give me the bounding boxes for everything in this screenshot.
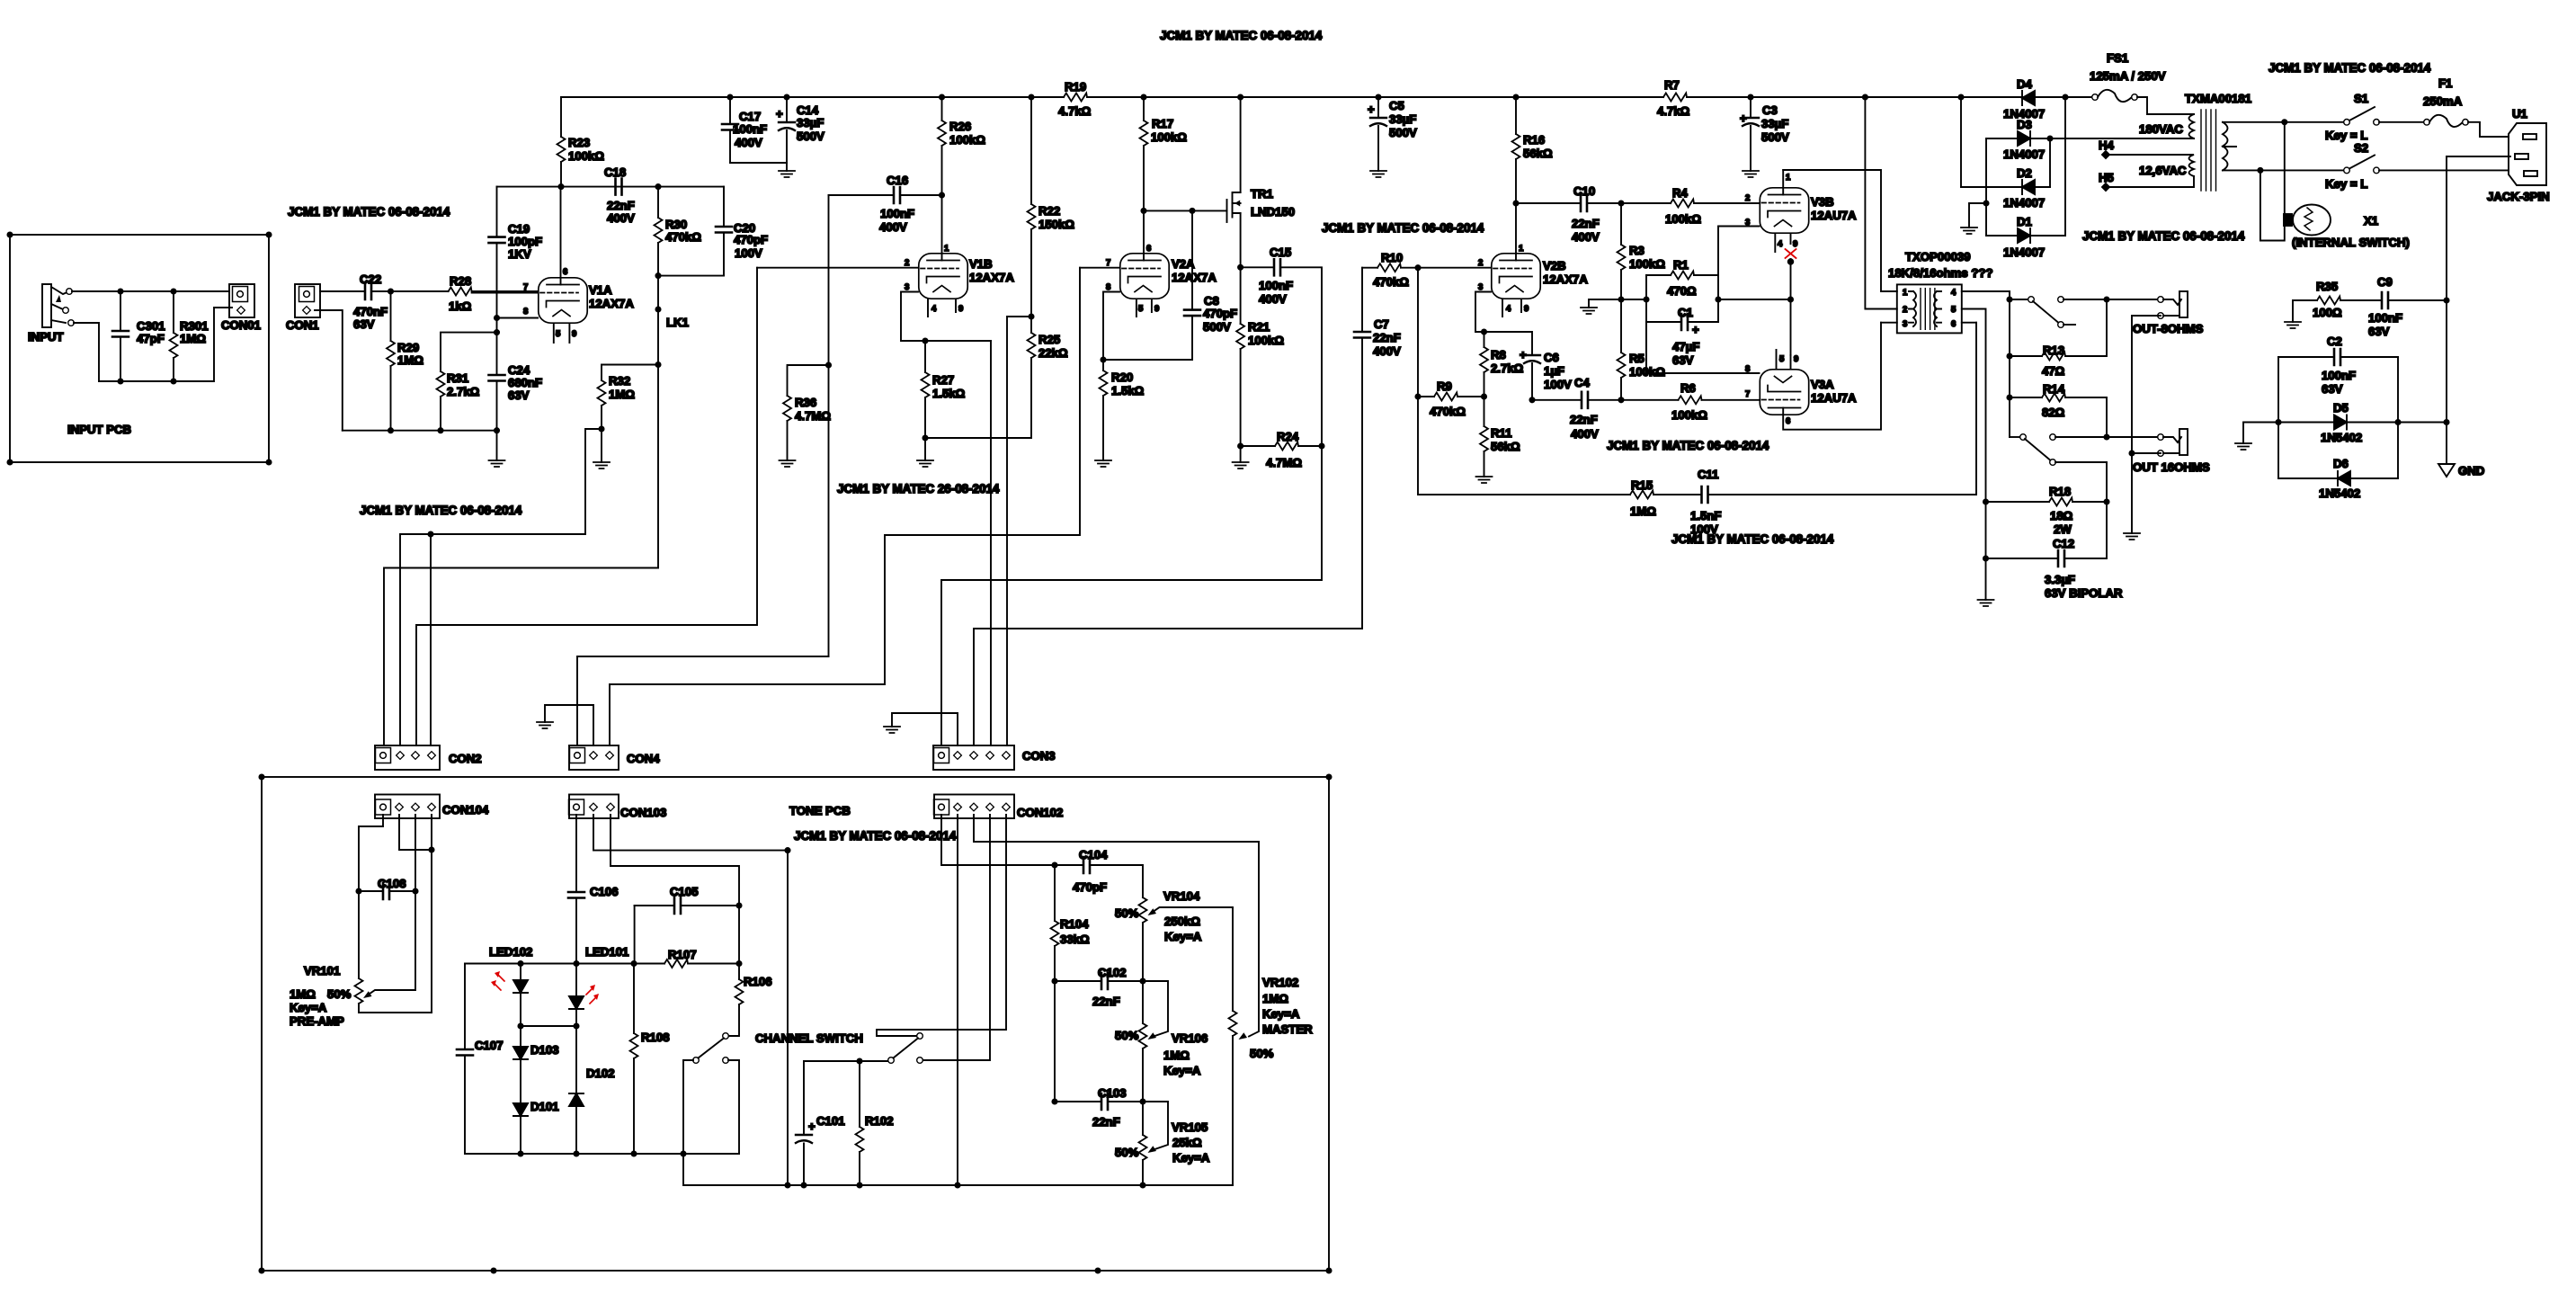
wire R30-C20 bottom xyxy=(655,273,724,278)
wire B+ to xfmr pin2 xyxy=(1865,97,1896,309)
svg-text:C107: C107 xyxy=(475,1039,504,1052)
header text 1 xyxy=(1160,29,1323,42)
svg-text:4.7MΩ: 4.7MΩ xyxy=(1266,456,1302,469)
svg-text:V1A: V1A xyxy=(589,283,612,297)
wire C17-C14 gnd xyxy=(730,163,787,171)
svg-text:22nF: 22nF xyxy=(1092,1115,1120,1129)
resistor R102 xyxy=(856,1061,894,1185)
wire xfmr pin3 from V3A xyxy=(1881,322,1897,324)
svg-text:100nF: 100nF xyxy=(1259,279,1293,292)
svg-text:JCM1 BY MATEC 06-08-2014: JCM1 BY MATEC 06-08-2014 xyxy=(288,205,450,219)
svg-text:9: 9 xyxy=(1524,304,1529,314)
wire xfmr pin6 out xyxy=(1962,322,1976,324)
svg-text:4: 4 xyxy=(1506,304,1511,314)
svg-text:C101: C101 xyxy=(816,1114,845,1128)
wire R27-R25 bottom xyxy=(925,437,1030,439)
svg-text:400V: 400V xyxy=(1572,230,1600,244)
svg-text:VR102: VR102 xyxy=(1262,976,1298,989)
svg-text:VR106: VR106 xyxy=(1172,1031,1208,1045)
capacitor C4 xyxy=(1529,376,1621,441)
svg-text:1: 1 xyxy=(1786,173,1791,183)
svg-text:1MΩ: 1MΩ xyxy=(1163,1049,1190,1062)
wire V1B grid drop to CON2 xyxy=(416,268,757,745)
resistor R15 xyxy=(1630,478,1702,518)
svg-text:V1B: V1B xyxy=(969,257,993,271)
svg-text:R21: R21 xyxy=(1248,320,1270,334)
svg-text:9: 9 xyxy=(572,329,576,339)
svg-text:C102: C102 xyxy=(1098,966,1127,979)
pot VR102 xyxy=(1229,976,1314,1185)
svg-text:470kΩ: 470kΩ xyxy=(1430,405,1466,418)
svg-text:63V: 63V xyxy=(2368,325,2390,338)
svg-text:CON104: CON104 xyxy=(442,803,489,817)
svg-text:R1: R1 xyxy=(1673,258,1689,272)
svg-text:JCM1 BY MATEC 06-08-2014: JCM1 BY MATEC 06-08-2014 xyxy=(2268,61,2431,75)
svg-text:C103: C103 xyxy=(1098,1086,1127,1100)
resistor R25 xyxy=(1028,314,1069,438)
resistor R107 xyxy=(664,903,742,968)
ground C5 xyxy=(1370,171,1386,177)
svg-text:2: 2 xyxy=(905,258,909,268)
svg-text:C5: C5 xyxy=(1389,99,1404,112)
svg-text:H4: H4 xyxy=(2099,138,2115,152)
svg-text:TONE PCB: TONE PCB xyxy=(789,804,851,817)
svg-text:4: 4 xyxy=(1778,239,1783,249)
capacitor C108 xyxy=(359,877,415,899)
resistor R35 xyxy=(2293,280,2382,322)
svg-text:R8: R8 xyxy=(1491,348,1506,361)
wire C8 to cathode xyxy=(1101,357,1192,361)
header text 8 xyxy=(2082,229,2245,243)
svg-text:Key=A: Key=A xyxy=(1262,1007,1300,1021)
svg-text:R102: R102 xyxy=(865,1114,894,1128)
svg-text:100kΩ: 100kΩ xyxy=(1665,212,1701,226)
ground R24 xyxy=(1233,462,1249,469)
svg-text:D3: D3 xyxy=(2017,118,2032,131)
node input-C301 xyxy=(118,289,175,293)
svg-text:100nF: 100nF xyxy=(733,122,767,136)
svg-text:1.5nF: 1.5nF xyxy=(1690,509,1721,522)
capacitor C101 xyxy=(796,1061,845,1185)
svg-text:56kΩ: 56kΩ xyxy=(1491,440,1520,453)
svg-text:R4: R4 xyxy=(1672,186,1689,200)
connector CON01 xyxy=(221,284,261,332)
svg-text:CON103: CON103 xyxy=(620,806,666,819)
svg-text:+: + xyxy=(1740,112,1747,125)
transformer TXMA00181 xyxy=(2050,92,2285,191)
svg-text:D102: D102 xyxy=(586,1066,615,1080)
resistor R108 xyxy=(630,964,670,1155)
tube V1A xyxy=(472,187,635,343)
svg-text:GND: GND xyxy=(2458,464,2484,477)
resistor R23 xyxy=(557,97,605,187)
svg-text:3: 3 xyxy=(1903,319,1907,329)
svg-text:C22: C22 xyxy=(360,272,381,286)
svg-text:100kΩ: 100kΩ xyxy=(568,149,604,163)
svg-text:R104: R104 xyxy=(1060,917,1089,931)
svg-text:R30: R30 xyxy=(665,218,687,231)
svg-text:470pF: 470pF xyxy=(734,233,768,246)
wire V1B cathode drop xyxy=(990,341,992,745)
svg-text:C301: C301 xyxy=(137,319,165,333)
svg-text:R7: R7 xyxy=(1664,78,1680,92)
svg-text:470pF: 470pF xyxy=(1203,307,1237,320)
svg-text:C18: C18 xyxy=(604,165,626,179)
svg-text:500V: 500V xyxy=(1389,126,1417,139)
svg-text:LK1: LK1 xyxy=(666,316,689,329)
svg-text:33µF: 33µF xyxy=(1761,117,1788,130)
svg-text:1N5402: 1N5402 xyxy=(2319,486,2360,500)
svg-text:Key=A: Key=A xyxy=(1164,930,1202,943)
resistor R26 xyxy=(938,97,985,195)
diode D101 xyxy=(513,1100,559,1154)
svg-text:R29: R29 xyxy=(397,341,419,354)
svg-text:1.5kΩ: 1.5kΩ xyxy=(1111,384,1145,397)
svg-text:2: 2 xyxy=(1903,305,1907,315)
wire CON102 pin5 xyxy=(877,815,1006,1036)
switch out-16 xyxy=(2010,434,2158,502)
svg-text:JCM1 BY MATEC 06-08-2014: JCM1 BY MATEC 06-08-2014 xyxy=(1607,439,1769,452)
svg-text:1MΩ: 1MΩ xyxy=(397,353,423,367)
svg-text:33kΩ: 33kΩ xyxy=(1060,933,1090,946)
svg-text:CON102: CON102 xyxy=(1017,806,1063,819)
svg-text:100nF: 100nF xyxy=(2322,369,2356,382)
svg-text:50%: 50% xyxy=(1250,1047,1274,1060)
svg-text:+: + xyxy=(776,107,783,120)
svg-text:R35: R35 xyxy=(2316,280,2338,293)
capacitor C22 xyxy=(320,272,391,331)
svg-text:S2: S2 xyxy=(2354,141,2368,155)
svg-text:CON4: CON4 xyxy=(627,752,660,765)
svg-text:R108: R108 xyxy=(641,1031,670,1044)
wire CON103 pin3 xyxy=(611,815,739,906)
svg-text:100V: 100V xyxy=(1544,378,1572,391)
wire jack mid pin gnd rail xyxy=(2444,156,2510,463)
svg-text:100nF: 100nF xyxy=(880,207,914,220)
svg-text:1MΩ: 1MΩ xyxy=(1630,504,1656,518)
svg-text:D5: D5 xyxy=(2333,401,2349,415)
wire B+ rail xyxy=(561,94,2065,99)
svg-text:F1: F1 xyxy=(2438,76,2452,90)
svg-text:1.5kΩ: 1.5kΩ xyxy=(932,387,966,400)
svg-text:D103: D103 xyxy=(530,1043,559,1057)
svg-text:R6: R6 xyxy=(1680,381,1696,395)
capacitor C107 xyxy=(457,964,504,1155)
wire xfmr pin5 out xyxy=(1962,309,1986,503)
diode D5 xyxy=(2278,401,2447,444)
svg-text:C17: C17 xyxy=(739,110,761,123)
svg-text:1kΩ: 1kΩ xyxy=(449,299,472,313)
svg-text:18K/8/16ohms ???: 18K/8/16ohms ??? xyxy=(1888,266,1993,280)
svg-text:9: 9 xyxy=(1794,354,1798,364)
svg-text:18Ω: 18Ω xyxy=(2050,509,2073,522)
fuse FS1 xyxy=(2065,51,2194,114)
svg-text:3: 3 xyxy=(1745,218,1750,228)
svg-text:5: 5 xyxy=(1951,305,1957,315)
ground R18/C12 xyxy=(1978,600,1994,606)
capacitor C105 xyxy=(635,885,739,964)
svg-text:4: 4 xyxy=(1951,288,1957,298)
svg-text:R19: R19 xyxy=(1065,80,1086,94)
switch out-8 xyxy=(2007,291,2158,437)
capacitor C1 xyxy=(1646,306,1718,367)
svg-text:4.7kΩ: 4.7kΩ xyxy=(1657,104,1690,118)
wire R10 to V2B xyxy=(1415,265,1491,270)
svg-text:470Ω: 470Ω xyxy=(1667,284,1697,298)
svg-text:JCM1 BY MATEC 06-08-2014: JCM1 BY MATEC 06-08-2014 xyxy=(1160,29,1323,42)
svg-text:100kΩ: 100kΩ xyxy=(1151,130,1187,144)
svg-text:100pF: 100pF xyxy=(508,235,542,248)
X mark V3B pin9 xyxy=(1786,249,1796,258)
wire V3B cathode chain xyxy=(1788,259,1794,355)
svg-text:CHANNEL SWITCH: CHANNEL SWITCH xyxy=(755,1031,863,1045)
svg-text:250mA: 250mA xyxy=(2423,94,2463,108)
wire V2A grid net to CON4 xyxy=(610,268,1080,745)
resistor R24 xyxy=(1238,430,1324,469)
svg-text:R301: R301 xyxy=(180,319,209,333)
svg-text:R18: R18 xyxy=(2049,485,2071,498)
svg-text:500V: 500V xyxy=(1203,320,1231,334)
svg-text:400V: 400V xyxy=(735,136,762,149)
LED101 arrows xyxy=(586,985,599,1004)
svg-text:LED101: LED101 xyxy=(585,945,628,959)
svg-text:33µF: 33µF xyxy=(1389,112,1416,126)
svg-text:C104: C104 xyxy=(1079,848,1108,861)
resistor R8 xyxy=(1480,329,1524,397)
capacitor C18 xyxy=(604,165,635,225)
resistor R16 xyxy=(1512,97,1554,203)
jack OUT 16OHMS xyxy=(2133,429,2210,474)
capacitor C24 xyxy=(489,318,543,431)
svg-text:R9: R9 xyxy=(1437,379,1452,393)
ground D5 xyxy=(2235,423,2278,451)
resistor R31 xyxy=(437,333,497,431)
header text 5 xyxy=(1322,221,1484,235)
svg-text:500V: 500V xyxy=(1761,130,1789,144)
diode D6 xyxy=(2278,457,2398,500)
tube V2B xyxy=(1475,203,1588,332)
svg-text:C16: C16 xyxy=(887,174,908,187)
svg-text:8: 8 xyxy=(1106,282,1110,292)
fuse F1 xyxy=(2379,76,2509,137)
svg-text:22nF: 22nF xyxy=(607,199,635,212)
ground R11 xyxy=(1476,477,1493,483)
wire S2 to jack xyxy=(2379,169,2509,171)
ground R27 xyxy=(917,460,933,467)
svg-text:2.7kΩ: 2.7kΩ xyxy=(447,385,480,398)
svg-text:63V BIPOLAR: 63V BIPOLAR xyxy=(2045,586,2123,600)
resistor R6 xyxy=(1618,381,1759,422)
wire R1C1 rails xyxy=(1621,275,1791,373)
svg-text:1: 1 xyxy=(1519,244,1524,254)
capacitor C15 xyxy=(1241,245,1322,446)
terminal H5 xyxy=(2099,171,2114,191)
wire LK1 xyxy=(655,276,689,568)
svg-text:C15: C15 xyxy=(1270,245,1291,259)
svg-text:C24: C24 xyxy=(508,363,530,377)
wire CON102 pin1 xyxy=(941,815,1055,865)
resistor R106 xyxy=(728,964,772,1037)
wire ground rail input stage xyxy=(343,428,499,460)
wire C16 net to CON4 xyxy=(577,656,829,745)
transistor TR1 LND150 xyxy=(1141,97,1295,267)
svg-text:TXMA00181: TXMA00181 xyxy=(2185,92,2251,105)
tube V2A xyxy=(1080,210,1217,370)
svg-text:R5: R5 xyxy=(1629,352,1645,365)
connector CON3 xyxy=(933,745,1056,770)
svg-text:R36: R36 xyxy=(795,396,816,409)
svg-text:D4: D4 xyxy=(2017,77,2033,91)
svg-text:C106: C106 xyxy=(590,885,619,898)
svg-text:D6: D6 xyxy=(2333,457,2349,470)
svg-text:Key=A: Key=A xyxy=(1172,1151,1210,1165)
resistor R17 xyxy=(1140,97,1188,210)
resistor R27 xyxy=(922,341,966,460)
wire gnd rail tone xyxy=(683,1154,1233,1188)
tube V1B xyxy=(757,195,1014,344)
svg-text:R24: R24 xyxy=(1277,430,1299,443)
svg-text:8: 8 xyxy=(1745,364,1750,374)
resistor R1 xyxy=(1646,258,1718,298)
svg-text:100kΩ: 100kΩ xyxy=(949,133,985,147)
header text 7 xyxy=(1671,532,1834,546)
svg-text:JCM1 BY MATEC 06-08-2014: JCM1 BY MATEC 06-08-2014 xyxy=(360,504,522,517)
wire CON102 pin2 xyxy=(957,815,958,1185)
svg-text:JACK-3PIN: JACK-3PIN xyxy=(2487,190,2550,203)
resistor R3 xyxy=(1618,203,1666,299)
svg-text:5: 5 xyxy=(556,329,561,339)
wire R32 net to CON2 xyxy=(400,531,585,745)
ground R32 xyxy=(593,462,610,469)
svg-text:1MΩ: 1MΩ xyxy=(180,332,206,345)
svg-text:12AU7A: 12AU7A xyxy=(1811,391,1857,405)
svg-text:3: 3 xyxy=(1478,282,1483,292)
pot VR104 xyxy=(1115,889,1233,1011)
svg-text:100V: 100V xyxy=(735,246,762,260)
ground CON4 xyxy=(537,722,553,728)
svg-text:680nF: 680nF xyxy=(508,376,542,389)
pot VR106 xyxy=(1115,981,1208,1102)
svg-text:9: 9 xyxy=(958,304,963,314)
LED LED102 xyxy=(489,945,532,1026)
svg-text:R27: R27 xyxy=(932,373,954,387)
svg-text:JCM1 BY MATEC 06-08-2014: JCM1 BY MATEC 06-08-2014 xyxy=(1671,532,1834,546)
connector CON104 xyxy=(375,795,489,819)
svg-text:+: + xyxy=(808,1120,816,1133)
svg-text:VR104: VR104 xyxy=(1163,889,1200,903)
svg-text:12AX7A: 12AX7A xyxy=(1543,272,1588,286)
svg-text:LED102: LED102 xyxy=(489,945,532,959)
capacitor C301 xyxy=(112,291,165,381)
capacitor C104 xyxy=(1052,848,1143,897)
resistor R301 xyxy=(170,291,209,381)
svg-text:V3B: V3B xyxy=(1811,195,1834,209)
svg-text:PRE-AMP: PRE-AMP xyxy=(290,1014,344,1028)
ground out jacks xyxy=(2124,533,2140,540)
svg-text:400V: 400V xyxy=(1373,344,1401,358)
svg-text:Key = L: Key = L xyxy=(2325,177,2367,191)
wire CON3 pin1 net xyxy=(941,446,1322,745)
svg-text:INPUT PCB: INPUT PCB xyxy=(67,423,131,436)
svg-text:C14: C14 xyxy=(797,103,819,117)
svg-text:CON3: CON3 xyxy=(1022,749,1056,763)
wire input bottom xyxy=(74,308,232,384)
svg-text:400V: 400V xyxy=(879,220,907,234)
resistor R11 xyxy=(1480,394,1520,477)
LED LED101 xyxy=(569,945,628,1026)
ground R35 xyxy=(2285,322,2301,328)
svg-text:1N4007: 1N4007 xyxy=(2003,245,2045,259)
text channel switch xyxy=(755,1031,863,1045)
svg-text:50%: 50% xyxy=(1115,906,1139,920)
jack OUT-8OHMS xyxy=(2133,291,2204,335)
resistor R32 xyxy=(585,365,658,535)
pot VR101 xyxy=(290,964,432,1028)
svg-text:50%: 50% xyxy=(1115,1146,1139,1159)
svg-text:JCM1 BY MATEC 06-08-2014: JCM1 BY MATEC 06-08-2014 xyxy=(1322,221,1484,235)
svg-text:25kΩ: 25kΩ xyxy=(1172,1136,1202,1149)
ground input stage xyxy=(489,460,505,467)
svg-text:50%: 50% xyxy=(1115,1029,1139,1042)
svg-text:180VAC: 180VAC xyxy=(2139,122,2183,136)
wire V3B anode to xfmr pin1 xyxy=(1783,170,1897,291)
resistor R18 xyxy=(1983,485,2109,536)
svg-text:(INTERNAL SWITCH): (INTERNAL SWITCH) xyxy=(2292,236,2410,249)
wire LED bottom rail xyxy=(465,1151,739,1156)
wire CON3 pin2 gnd xyxy=(892,713,958,745)
connector CON4 xyxy=(569,745,660,770)
svg-text:63V: 63V xyxy=(508,388,530,402)
capacitor C11 xyxy=(1690,323,1976,536)
capacitor C6 xyxy=(1484,332,1573,400)
svg-text:63V: 63V xyxy=(353,317,375,331)
svg-text:1µF: 1µF xyxy=(1544,364,1564,378)
svg-text:U1: U1 xyxy=(2512,107,2527,120)
svg-text:R26: R26 xyxy=(949,120,971,133)
tube V3B xyxy=(1694,170,1857,275)
svg-text:7: 7 xyxy=(1106,258,1110,268)
svg-text:100kΩ: 100kΩ xyxy=(1671,408,1707,422)
svg-text:+: + xyxy=(1692,323,1699,336)
ground CON3 xyxy=(884,727,900,733)
header text 6 xyxy=(1607,439,1769,452)
svg-text:C12: C12 xyxy=(2053,537,2074,550)
capacitor C9 xyxy=(2368,275,2447,338)
svg-text:100kΩ: 100kΩ xyxy=(1248,334,1284,347)
svg-text:1MΩ: 1MΩ xyxy=(1262,992,1288,1005)
svg-text:LND150: LND150 xyxy=(1251,205,1295,219)
svg-text:FS1: FS1 xyxy=(2107,51,2128,65)
svg-text:12,6VAC: 12,6VAC xyxy=(2139,164,2187,177)
svg-text:56kΩ: 56kΩ xyxy=(1523,147,1553,160)
wire feedback R9 xyxy=(1418,268,1630,495)
svg-text:JCM1 BY MATEC 26-08-2014: JCM1 BY MATEC 26-08-2014 xyxy=(837,482,1000,495)
svg-text:X1: X1 xyxy=(2364,214,2378,228)
capacitor C8 xyxy=(1184,209,1237,360)
connector CON2 xyxy=(375,745,482,770)
svg-text:500V: 500V xyxy=(797,129,824,143)
svg-text:6: 6 xyxy=(563,267,567,277)
wire C22 to R28 xyxy=(388,289,449,293)
resistor R29 xyxy=(387,291,423,431)
diode D2 xyxy=(1961,166,2050,210)
svg-text:R17: R17 xyxy=(1152,117,1173,130)
switch channel B xyxy=(888,1033,923,1064)
header text 4 xyxy=(794,829,957,843)
resistor R36 xyxy=(783,365,831,460)
svg-text:470nF: 470nF xyxy=(353,305,388,318)
svg-text:3: 3 xyxy=(905,282,909,292)
